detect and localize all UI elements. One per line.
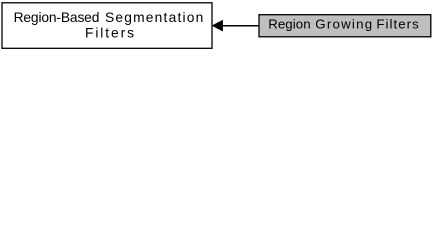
svg-text:Region: Region [268,17,310,32]
arrowhead pointing left at Region-Based node [212,20,222,31]
svg-text:Filters: Filters [376,17,419,32]
node box (current page, grey): Region Growing Filters [259,15,431,37]
svg-text:Region-Based: Region-Based [14,10,100,25]
svg-text:Segmentation: Segmentation [105,10,203,25]
node box: Region-Based Segmentation Filters [2,3,212,49]
wire: arrow shaft from grey node to left node [222,25,259,27]
